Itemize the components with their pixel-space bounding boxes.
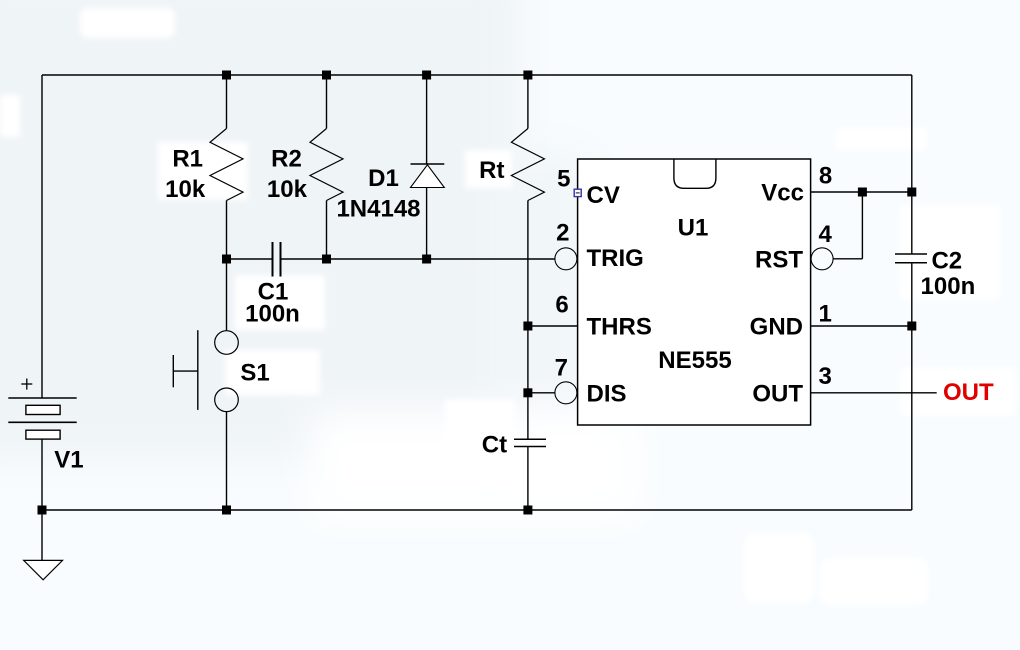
- wire Ct to bottom rail: [527, 447, 529, 510]
- svg-text:C2: C2: [931, 248, 962, 275]
- svg-text:Vcc: Vcc: [761, 180, 804, 207]
- wire Rt top lead: [527, 75, 529, 129]
- resistor R2: [310, 129, 343, 201]
- wire TRIG row left of C1: [227, 258, 273, 260]
- node battery bottom: [38, 506, 47, 515]
- node Ct bottom: [523, 506, 532, 515]
- diode D1: [411, 164, 445, 188]
- wire ground stub: [41, 510, 43, 560]
- wire left rail to battery: [41, 75, 43, 398]
- svg-text:RST: RST: [755, 246, 803, 273]
- node dots: [38, 71, 917, 515]
- node THRS: [523, 322, 532, 331]
- wire top rail: [42, 74, 912, 76]
- switch S1: [173, 330, 238, 411]
- svg-text:S1: S1: [240, 360, 269, 387]
- ground: [24, 560, 63, 579]
- svg-text:1: 1: [819, 300, 832, 327]
- wire battery to bottom rail: [41, 439, 43, 510]
- wire R2 bottom lead: [326, 201, 328, 260]
- svg-text:R2: R2: [271, 145, 302, 172]
- svg-text:10k: 10k: [267, 176, 308, 203]
- svg-text:3: 3: [819, 363, 832, 390]
- wire OUT row: [811, 392, 937, 394]
- wire R1 bottom lead to S1: [226, 201, 228, 331]
- svg-text:DIS: DIS: [587, 381, 627, 408]
- wire RST link horizontal: [833, 258, 862, 260]
- node DIS: [523, 388, 532, 397]
- wire D1 top lead: [426, 75, 428, 164]
- wire D1 bottom lead: [426, 188, 428, 260]
- wire TRIG row C1 to TRIG pin: [281, 258, 555, 260]
- resistor R1: [210, 129, 243, 201]
- svg-text:OUT: OUT: [752, 381, 803, 408]
- wire DIS row: [528, 392, 555, 394]
- wire R1 column top lead: [226, 75, 228, 129]
- svg-text:5: 5: [557, 166, 570, 193]
- IC U1 NE555 body: [578, 159, 811, 425]
- wire bottom rail: [42, 509, 912, 511]
- wire Rt bottom lead down to Ct: [527, 201, 529, 439]
- resistor Rt: [511, 129, 544, 201]
- node D1 top: [422, 71, 431, 80]
- svg-text:1N4148: 1N4148: [336, 195, 420, 222]
- svg-text:V1: V1: [54, 446, 83, 473]
- node Vcc right: [907, 188, 916, 197]
- wire S1 to bottom rail: [226, 412, 228, 510]
- node GND right: [907, 322, 916, 331]
- pin 2 TRIG bubble: [555, 248, 577, 270]
- pin 4 RST bubble: [811, 248, 833, 270]
- wire RST link vertical: [861, 192, 863, 259]
- svg-text:100n: 100n: [245, 300, 300, 327]
- svg-text:D1: D1: [368, 165, 399, 192]
- pin 5 CV marker: [574, 189, 581, 196]
- node Vcc mid: [858, 188, 867, 197]
- svg-text:NE555: NE555: [658, 347, 731, 374]
- node C1 left: [222, 255, 231, 264]
- node C1 right: [322, 255, 331, 264]
- svg-text:8: 8: [819, 162, 832, 189]
- node D1 bottom: [422, 255, 431, 264]
- wire R2 column top lead: [326, 75, 328, 129]
- svg-text:GND: GND: [750, 314, 803, 341]
- svg-text:OUT: OUT: [943, 379, 994, 406]
- node Rt top: [523, 71, 532, 80]
- wire right rail upper (to C2 top plate): [911, 75, 913, 254]
- wire GND row: [811, 325, 912, 327]
- node R2 top: [322, 71, 331, 80]
- svg-text:10k: 10k: [165, 176, 206, 203]
- wire right rail lower (from C2 bottom plate): [911, 263, 913, 510]
- U1 notch: [674, 159, 716, 188]
- svg-text:100n: 100n: [921, 273, 976, 300]
- svg-text:TRIG: TRIG: [587, 245, 644, 272]
- svg-text:2: 2: [556, 220, 569, 247]
- svg-text:THRS: THRS: [587, 314, 652, 341]
- battery V1: [8, 379, 76, 440]
- svg-text:U1: U1: [678, 214, 709, 241]
- svg-text:7: 7: [555, 355, 568, 382]
- pin 7 DIS bubble: [555, 382, 577, 404]
- capacitor C2: [895, 254, 927, 263]
- node R1 top: [222, 71, 231, 80]
- svg-text:Ct: Ct: [482, 431, 507, 458]
- svg-text:4: 4: [819, 221, 833, 248]
- svg-text:CV: CV: [587, 182, 620, 209]
- node S1 bottom: [222, 506, 231, 515]
- svg-text:6: 6: [555, 292, 568, 319]
- svg-text:R1: R1: [172, 145, 203, 172]
- capacitor C1: [273, 242, 281, 277]
- wire Vcc row: [811, 191, 912, 193]
- capacitor Ct: [514, 439, 546, 446]
- svg-text:Rt: Rt: [479, 157, 504, 184]
- wire THRS row: [528, 325, 578, 327]
